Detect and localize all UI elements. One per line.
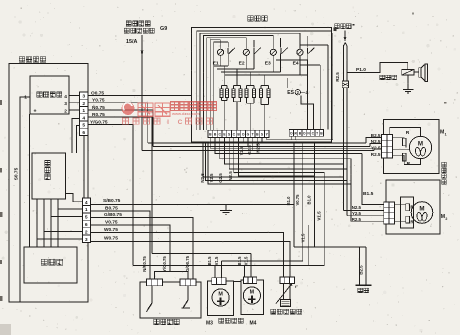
resistor bank bottom bridges	[222, 100, 228, 102]
terminal strip B of control unit	[289, 129, 323, 136]
blower speed switch 风量开关	[30, 76, 69, 114]
svg-text:M: M	[418, 140, 423, 147]
svg-text:3: 3	[64, 101, 67, 107]
svg-text:S0.75: S0.75	[13, 167, 19, 180]
label 电控盒	[248, 16, 253, 22]
svg-text:G9: G9	[160, 26, 167, 32]
resistor bank top bridges	[222, 85, 228, 87]
battery feed arrow	[344, 31, 346, 38]
internal routing bus	[197, 31, 332, 130]
svg-text:2: 2	[85, 230, 88, 236]
mid vertical B1.0	[293, 142, 295, 247]
resistor bank R5	[246, 86, 248, 89]
svg-text:O: O	[290, 132, 293, 136]
svg-text:B1.0: B1.0	[307, 195, 312, 205]
M2 internal resistors	[401, 197, 414, 228]
relay bottom bus	[214, 65, 229, 67]
svg-text:O: O	[303, 132, 306, 136]
svg-text:5: 5	[82, 123, 85, 129]
indicator lamp box 指示灯	[32, 153, 65, 199]
battery label 蓄电池	[335, 24, 340, 29]
svg-text:G2.5: G2.5	[247, 145, 252, 155]
svg-text:B1.0: B1.0	[286, 196, 291, 206]
svg-text:1: 1	[24, 95, 27, 101]
svg-text:G: G	[247, 133, 250, 137]
temperature sensor 温度传感器	[280, 277, 295, 284]
svg-text:N2.5: N2.5	[371, 139, 381, 144]
condenser motor M3	[207, 281, 233, 316]
svg-text:N/R0.75: N/R0.75	[142, 256, 147, 272]
compressor clutch coil	[402, 69, 414, 75]
compressor ground	[407, 75, 409, 90]
svg-text:2: 2	[445, 217, 447, 221]
svg-text:E2: E2	[239, 60, 245, 66]
mid vertical V1.5	[323, 173, 325, 266]
wire O0.75	[88, 95, 192, 97]
mid vertical V0.75	[302, 142, 304, 261]
wire Y/G0.75	[88, 125, 133, 266]
svg-text:N2.5: N2.5	[255, 143, 260, 153]
pressure contacts	[148, 286, 153, 310]
relay E2	[243, 49, 249, 55]
svg-text:M3: M3	[206, 320, 213, 326]
svg-text:Y2.5: Y2.5	[209, 173, 214, 183]
connector at M2	[384, 202, 389, 224]
wires strip X1 cells 4,5 to indicator box	[72, 119, 80, 154]
svg-text:B1.5: B1.5	[363, 191, 374, 197]
terminal strip A of control unit	[208, 130, 269, 137]
wire inside box bottom	[267, 139, 333, 141]
svg-text:4: 4	[82, 115, 85, 121]
wires into M2	[362, 154, 384, 205]
label 风量开关	[37, 92, 42, 97]
ground 搭铁	[359, 247, 361, 285]
blower unit M1 box	[384, 119, 439, 173]
svg-text:M: M	[250, 289, 255, 295]
wire G/B0.75	[91, 218, 194, 280]
control panel box 控制面板	[9, 64, 88, 303]
compressor clutch symbol	[419, 68, 421, 78]
svg-text:V1.5: V1.5	[301, 233, 306, 242]
feed wire with arrow	[141, 35, 143, 151]
label 温度传感器	[271, 309, 276, 314]
svg-text:N2.5: N2.5	[228, 171, 233, 181]
svg-text:1: 1	[85, 207, 88, 213]
wire V0.75	[91, 225, 171, 272]
svg-text:T: T	[316, 132, 318, 136]
svg-text:W0.75: W0.75	[104, 227, 118, 233]
svg-text:G2.5: G2.5	[218, 173, 223, 183]
svg-text:M: M	[419, 205, 424, 212]
label 搭铁	[358, 288, 363, 293]
svg-text:B1.5: B1.5	[207, 256, 212, 266]
svg-text:I: I	[167, 119, 169, 126]
svg-text:Y2.5: Y2.5	[352, 211, 362, 216]
bus D y=261	[222, 260, 303, 262]
wires to M3 M4	[214, 266, 216, 278]
bus C y=253.5	[152, 253, 251, 255]
svg-text:R2.5: R2.5	[352, 217, 362, 222]
blower motor M1	[409, 136, 431, 158]
svg-text:B0.75: B0.75	[105, 205, 118, 211]
svg-text:V0.75: V0.75	[295, 194, 300, 206]
resistor bank R4	[240, 86, 242, 89]
label 压缩机	[380, 75, 385, 80]
svg-text:1: 1	[445, 133, 447, 137]
wire strip1 pin6 down to X2	[83, 136, 85, 199]
svg-text:W0.75: W0.75	[104, 235, 118, 241]
svg-text:3: 3	[85, 237, 88, 243]
svg-text:2: 2	[82, 101, 85, 107]
svg-text:R: R	[406, 130, 410, 136]
svg-text:C: C	[178, 119, 183, 126]
svg-text:R0.75: R0.75	[92, 112, 105, 118]
wire pin2	[69, 109, 80, 111]
svg-text:Y0.75: Y0.75	[92, 98, 105, 104]
wire Y0.75	[88, 103, 148, 143]
fusible link	[343, 46, 345, 82]
wire W0.75 a	[91, 233, 284, 277]
pressure switch bridge	[155, 272, 189, 280]
M1 internal resistors	[393, 137, 405, 140]
relay E3	[270, 49, 276, 55]
long horizontals to blower M1	[148, 142, 366, 144]
svg-text:O0.75: O0.75	[91, 90, 104, 96]
resistor bank R7	[260, 86, 262, 89]
condenser motor M4	[241, 280, 264, 315]
svg-text:1: 1	[82, 108, 85, 114]
watermark 维库电子市场网	[122, 102, 217, 126]
wires strip A short drops	[242, 138, 244, 144]
svg-text:E3: E3	[265, 60, 271, 66]
wire pin3	[69, 102, 80, 104]
pressure switch 压力开关	[140, 282, 201, 318]
wire X2 pin4 step to indicator	[65, 194, 82, 202]
svg-text:6: 6	[82, 130, 85, 136]
wire B0.75	[91, 211, 151, 279]
svg-text:3: 3	[82, 94, 85, 100]
svg-text:V0.75: V0.75	[105, 219, 118, 225]
svg-text:R2.5: R2.5	[371, 152, 381, 157]
svg-text:5: 5	[85, 215, 88, 221]
svg-text:G/O0.75: G/O0.75	[185, 255, 190, 271]
M3-M4 link	[234, 281, 241, 283]
svg-text:M: M	[218, 291, 223, 297]
battery twin feeds down	[343, 88, 345, 211]
bus A y=247	[294, 246, 366, 248]
svg-text:+: +	[34, 109, 37, 115]
svg-text:V1.5: V1.5	[244, 256, 249, 265]
wires X2 to verticals	[58, 208, 82, 210]
svg-text:S/B0.75: S/B0.75	[103, 198, 121, 204]
feed label 接汽车的中央控制盒	[126, 21, 131, 26]
svg-text:V1.5: V1.5	[214, 256, 219, 265]
svg-text:R2.5: R2.5	[335, 72, 340, 82]
label 冷凝电机	[219, 318, 224, 323]
mid vertical V1.5 b	[307, 225, 309, 266]
label 指示灯 vertical	[45, 161, 50, 167]
connector strip X2 (pins 4 1 5 6 2 3)	[82, 198, 90, 243]
bypass wires from control unit bottom-left	[203, 142, 344, 177]
label 蒸发风机 vertical	[442, 162, 446, 167]
connector strip X1 (pins 3 2 1 4 5 6)	[80, 92, 89, 136]
wire feed into control unit	[142, 95, 192, 97]
svg-text:Y2.5: Y2.5	[371, 145, 381, 150]
svg-text:P1.0: P1.0	[356, 67, 366, 73]
resistor bank R6	[253, 86, 255, 89]
blower motor M2	[411, 202, 433, 224]
label 控制面板	[19, 57, 24, 63]
svg-text:E1: E1	[213, 60, 219, 66]
blower unit M2 box	[386, 180, 440, 234]
svg-text:6: 6	[85, 222, 88, 228]
svg-text:E4: E4	[293, 60, 299, 66]
resistor bank R1	[221, 86, 223, 89]
chassis ground tap on S/B wire	[225, 205, 227, 211]
svg-text:Y/G0.75: Y/G0.75	[90, 119, 108, 125]
electric control unit box 电控盒	[192, 28, 332, 143]
svg-text:4: 4	[306, 90, 309, 96]
svg-text:15/A: 15/A	[126, 39, 137, 45]
wires strip A down-turn right bundle	[210, 138, 381, 149]
svg-text:N2.5: N2.5	[200, 173, 205, 183]
svg-text:B2.5: B2.5	[371, 133, 381, 138]
svg-text:R: R	[407, 161, 411, 167]
wire pin1 to S0.75 run	[20, 97, 30, 302]
svg-text:B1.5: B1.5	[237, 256, 242, 266]
svg-text:Y/G0.75: Y/G0.75	[162, 256, 167, 272]
resistor bank R3	[233, 86, 235, 89]
svg-text:2: 2	[64, 108, 67, 114]
wire N0.75	[88, 110, 153, 147]
wire from switch bottom down	[29, 114, 31, 247]
svg-text:N2.5: N2.5	[352, 205, 362, 210]
label 温控器	[41, 259, 47, 265]
relay E1	[218, 49, 224, 55]
bus B y=265.5	[133, 265, 324, 267]
thermostat box 温控器	[24, 247, 77, 283]
connector at M1	[382, 135, 388, 159]
svg-text:B2.5: B2.5	[359, 265, 364, 275]
wire R0.75	[88, 117, 152, 254]
resistor bank R2	[226, 86, 228, 89]
wire S/B0.75	[91, 204, 295, 206]
resistor bank R8	[268, 86, 270, 89]
svg-text:4: 4	[85, 200, 88, 206]
svg-text:G/B0.75: G/B0.75	[104, 212, 122, 218]
scan artifacts	[0, 100, 2, 105]
relay E4	[297, 49, 303, 55]
mid vertical B1.0 b	[313, 142, 315, 247]
svg-text:M4: M4	[250, 320, 257, 326]
wire W0.75 b	[91, 242, 291, 277]
compressor feed wire P1.0	[347, 62, 408, 72]
svg-text:O: O	[242, 133, 245, 137]
svg-text:ES: ES	[287, 90, 294, 96]
wires indicator box to thermostat	[36, 199, 38, 247]
wire pin4	[69, 95, 80, 97]
